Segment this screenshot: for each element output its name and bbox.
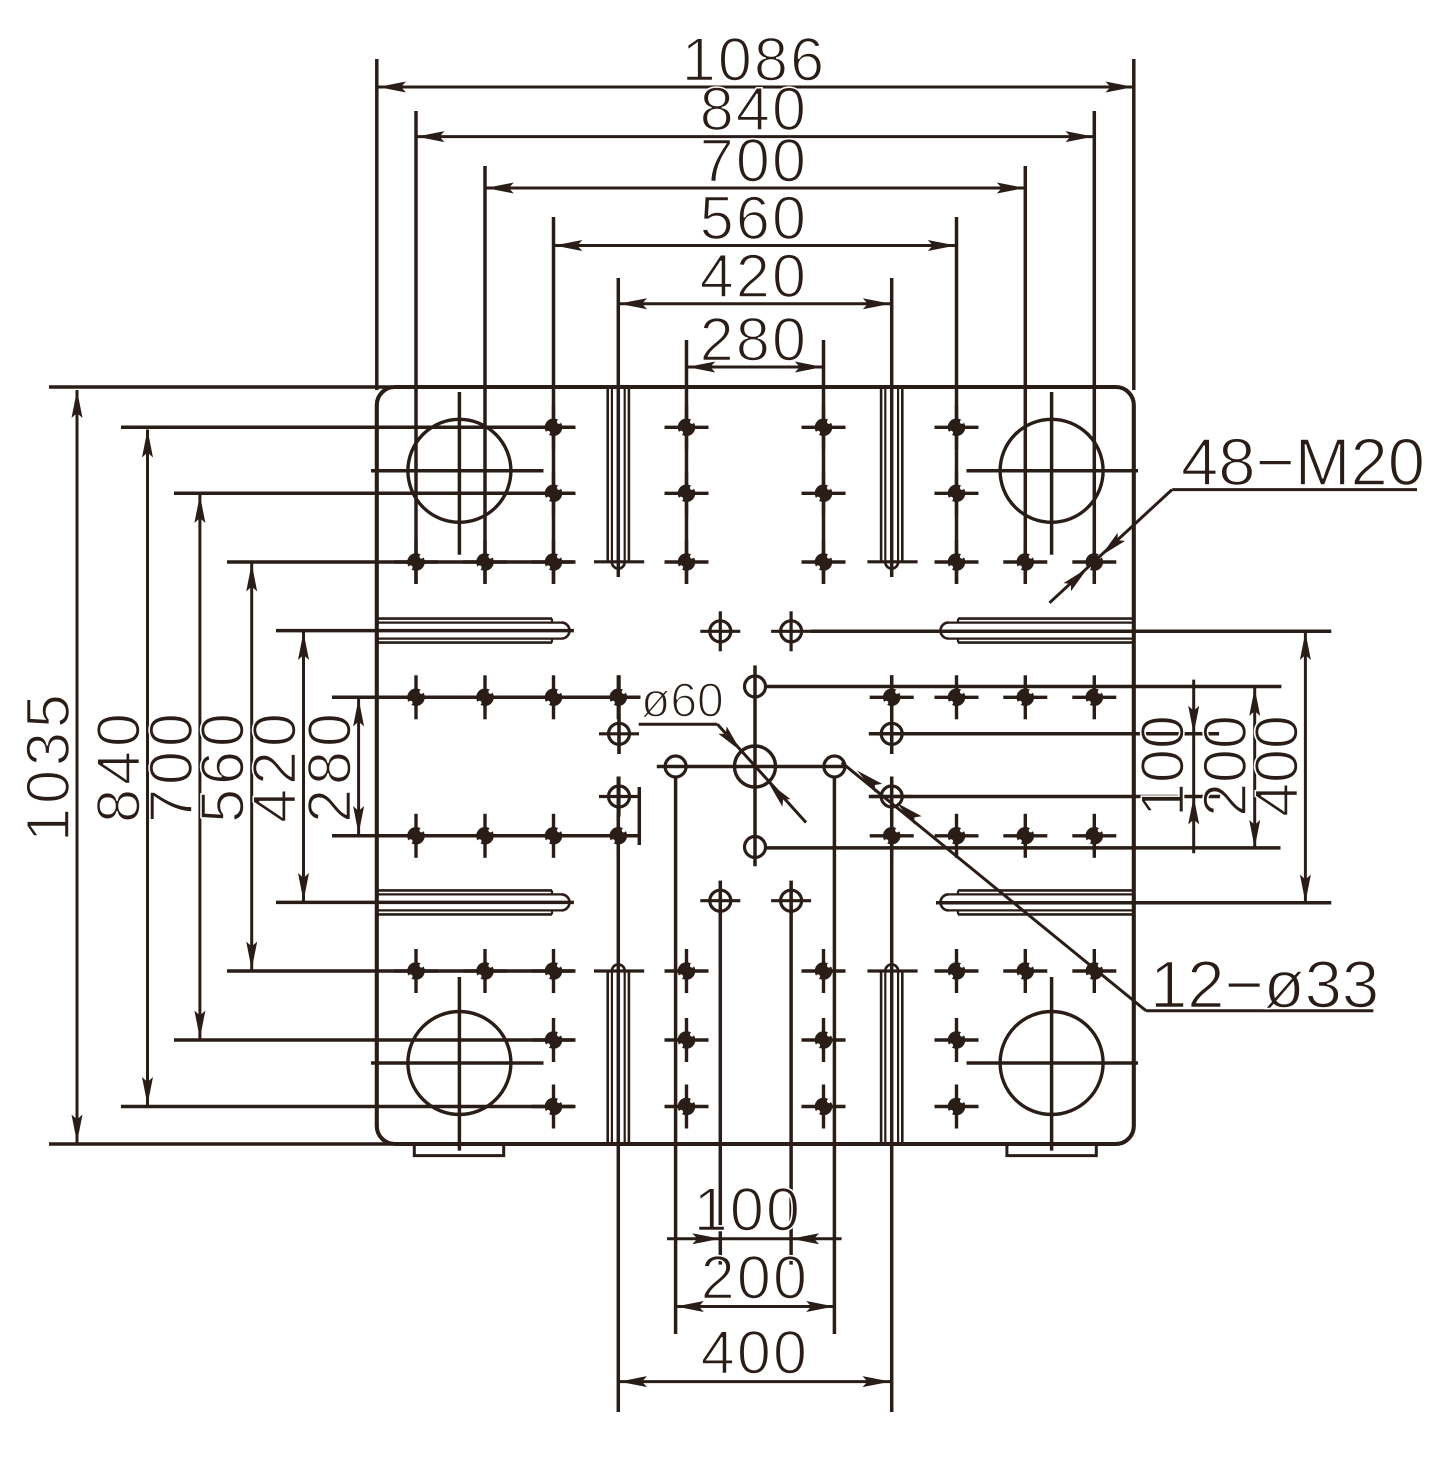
- slot centerline / ext col 892 bottom: [890, 777, 894, 1413]
- plate outline: [377, 387, 1134, 1144]
- tie-bar centerline horizontal top-left: [371, 469, 544, 473]
- dimension 280 top: [687, 366, 823, 369]
- M20 tapped hole (891.7,697.3): [870, 675, 914, 719]
- centerline col 892 upper: [890, 675, 894, 754]
- M20 tapped hole (891.7,835.8): [870, 814, 914, 858]
- ext col 553 top: [552, 217, 556, 584]
- center vertical centerline: [753, 665, 757, 866]
- M20 tapped hole (618.3,835.8): [596, 814, 640, 858]
- ext col 676 bottom: [674, 778, 678, 1335]
- center horizontal centerline: [657, 765, 844, 769]
- ejector hole o33 (720.3,900.7): [700, 881, 740, 921]
- ext col 720 bottom: [719, 881, 723, 1265]
- M20 tapped hole (553.5,835.8): [532, 814, 576, 858]
- M20 tapped hole (1025.3,971): [1003, 949, 1047, 993]
- dimension 700 left: [198, 495, 201, 1039]
- dimension 1035 left: [76, 390, 79, 1143]
- M20 tapped hole (823.5,493.3): [802, 471, 846, 515]
- M20 tapped hole (686.5,971): [665, 949, 709, 993]
- M20 tapped hole (553.5,1106.5): [532, 1085, 576, 1129]
- M20 tapped hole (956.5,493.3): [935, 471, 979, 515]
- T-slot horizontal right-bottom: [958, 889, 1134, 892]
- ext row 562 left: [227, 560, 574, 564]
- svg-text:ø60: ø60: [641, 675, 724, 728]
- M20 tapped hole (956.5,971): [935, 949, 979, 993]
- M20 tapped hole (1025.3,835.8): [1003, 814, 1047, 858]
- slot centerline / ext row 903 right: [936, 901, 1331, 905]
- dimension 560 left: [250, 564, 253, 970]
- M20 tapped hole (956.5,1040): [935, 1018, 979, 1062]
- M20 tapped hole (416,971): [394, 949, 438, 993]
- tie-bar hole bottom-right: [1000, 1012, 1103, 1115]
- svg-text:400: 400: [1242, 715, 1310, 817]
- dimension 100 bottom: [667, 1237, 842, 1240]
- dimension 420 left: [302, 632, 305, 901]
- M20 tapped hole (485,835.8): [463, 814, 507, 858]
- dimension 400 right: [1304, 632, 1307, 903]
- M20 tapped hole (553.5,562): [532, 540, 576, 584]
- M20 tapped hole (1025.3,562): [1003, 540, 1047, 584]
- svg-text:420: 420: [700, 242, 808, 310]
- tie-bar hole top-left: [408, 419, 511, 522]
- M20 tapped hole (686.5,562): [665, 540, 709, 584]
- centerline col 619 upper: [617, 675, 621, 754]
- T-slot horizontal left-top: [377, 617, 552, 620]
- M20 tapped hole (485,562): [463, 540, 507, 584]
- M20 tapped hole (553.5,427.3): [532, 405, 576, 449]
- M20 tapped hole (416,562): [394, 540, 438, 584]
- ext row 848 right: [766, 846, 1281, 850]
- dimension 700 top: [486, 187, 1025, 190]
- ejector hole o33 (720.3,631.3): [700, 611, 740, 651]
- ext row 631 right: [811, 630, 1331, 634]
- ext col 956 top: [955, 217, 959, 584]
- T-slot vertical top-left: [606, 387, 609, 561]
- svg-text:400: 400: [701, 1318, 809, 1386]
- tie-bar centerline horizontal top-right: [967, 469, 1139, 473]
- M20 tapped hole (1094.3,562): [1072, 540, 1116, 584]
- tie-bar centerline vertical bottom-right: [1050, 977, 1054, 1151]
- ext col 686 top: [685, 340, 689, 584]
- svg-text:12−ø33: 12−ø33: [1150, 948, 1379, 1023]
- ext col 791 bottom: [789, 881, 793, 1265]
- ext row 836 left: [332, 834, 641, 838]
- M20 tapped hole (956.5,697.3): [935, 675, 979, 719]
- ext plate left edge up: [375, 59, 379, 390]
- dimension 560 top: [554, 244, 956, 247]
- M20 tapped hole (823.5,971): [802, 949, 846, 993]
- T-slot horizontal left-bottom: [377, 889, 552, 892]
- leader 48-M20: [1050, 490, 1173, 603]
- svg-text:48−M20: 48−M20: [1181, 425, 1425, 500]
- ejector hole o33 (755,847): [745, 837, 766, 858]
- M20 tapped hole (956.5,1106.5): [935, 1085, 979, 1129]
- ejector hole o33 (834.4,766.5): [824, 756, 845, 777]
- dimension 280 left: [357, 699, 360, 835]
- slot centerline col 618 top: [617, 278, 621, 577]
- M20 tapped hole (686.5,493.3): [665, 471, 709, 515]
- M20 tapped hole (956.5,562): [935, 540, 979, 584]
- M20 tapped hole (686.5,1040): [665, 1018, 709, 1062]
- M20 tapped hole (485,697.3): [463, 675, 507, 719]
- svg-text:1035: 1035: [14, 690, 82, 842]
- ejector hole o33 (891.7,733.8): [872, 714, 912, 754]
- ext bottom edge left: [49, 1142, 392, 1146]
- M20 tapped hole (823.5,562): [802, 540, 846, 584]
- ext col 834 bottom: [833, 778, 837, 1335]
- ejector hole o33 (619,796.5): [599, 777, 639, 817]
- tie-bar centerline horizontal bottom-left: [371, 1061, 544, 1065]
- ext row 687 right: [766, 685, 1281, 689]
- ext row 1106 left: [121, 1105, 574, 1109]
- M20 tapped hole (686.5,427.3): [665, 405, 709, 449]
- ejector hole o33 (619,733.8): [599, 714, 639, 754]
- tie-bar hole top-right: [1000, 419, 1103, 522]
- M20 tapped hole (823.5,1106.5): [802, 1085, 846, 1129]
- dimension 840 left: [146, 430, 149, 1106]
- M20 tapped hole (1094.3,971): [1072, 949, 1116, 993]
- ext top edge left: [49, 385, 392, 389]
- T-slot vertical top-right: [880, 387, 883, 561]
- slot centerline / ext col 618 bottom: [617, 777, 621, 1413]
- dimension 400 bottom: [619, 1380, 891, 1383]
- ext row 427 left: [121, 426, 574, 430]
- leader 12-o33: [842, 763, 1146, 1011]
- M20 tapped hole (416,835.8): [394, 814, 438, 858]
- M20 tapped hole (553.5,493.3): [532, 471, 576, 515]
- svg-text:200: 200: [701, 1243, 809, 1311]
- tie-bar centerline vertical bottom-left: [458, 977, 462, 1151]
- ext row 1040 left: [174, 1038, 574, 1042]
- ejector hole o33 (891.7,796.5): [872, 777, 912, 817]
- tie-bar centerline vertical top-right: [1050, 392, 1054, 555]
- ext row 734 right: [869, 732, 1219, 736]
- dimension 840 top: [417, 135, 1094, 138]
- M20 tapped hole (1025.3,697.3): [1003, 675, 1047, 719]
- M20 tapped hole (485,971): [463, 949, 507, 993]
- M20 tapped hole (956.5,427.3): [935, 405, 979, 449]
- dimension 200 bottom: [676, 1305, 834, 1308]
- ext row 797 right: [869, 795, 1220, 799]
- ejector hole o33 (675.6,766.5): [665, 756, 686, 777]
- M20 tapped hole (823.5,427.3): [802, 405, 846, 449]
- ext col 485 top: [483, 166, 487, 584]
- M20 tapped hole (553.5,1040): [532, 1018, 576, 1062]
- slot centerline col 892 top: [890, 278, 894, 577]
- M20 tapped hole (1094.3,697.3): [1072, 675, 1116, 719]
- ejector hole o33 (791.1,900.7): [771, 881, 811, 921]
- tie-bar centerline vertical top-left: [458, 392, 462, 555]
- bottom mounting tab left: [414, 1144, 503, 1156]
- leader o60: [639, 723, 718, 726]
- ext row 971 left: [227, 969, 574, 973]
- slot centerline / ext row 902 left: [276, 901, 574, 905]
- ext col 823 top: [822, 340, 826, 584]
- T-slot vertical bottom-left: [606, 972, 609, 1144]
- svg-text:100: 100: [1128, 715, 1196, 817]
- M20 tapped hole (416,697.3): [394, 675, 438, 719]
- locating ring hole o60: [735, 746, 776, 787]
- dimension 100 right: [1192, 680, 1195, 854]
- M20 tapped hole (553.5,697.3): [532, 675, 576, 719]
- svg-text:280: 280: [296, 709, 364, 823]
- svg-text:280: 280: [700, 306, 808, 374]
- M20 tapped hole (618.3,697.3): [596, 675, 640, 719]
- svg-text:100: 100: [694, 1176, 802, 1244]
- tie-bar hole bottom-left: [408, 1012, 511, 1115]
- M20 tapped hole (686.5,1106.5): [665, 1085, 709, 1129]
- T-slot vertical bottom-right: [880, 972, 883, 1144]
- dimension 420 top: [619, 302, 891, 305]
- ext row 697 left: [332, 696, 641, 700]
- M20 tapped hole (956.5,835.8): [935, 814, 979, 858]
- M20 tapped hole (553.5,971): [532, 949, 576, 993]
- ejector hole o33 (791.1,631.3): [771, 611, 811, 651]
- M20 tapped hole (823.5,1040): [802, 1018, 846, 1062]
- ext col 416 top: [414, 111, 418, 584]
- ejector hole o33 (755,686.5): [745, 676, 766, 697]
- ext row 493 left: [174, 492, 574, 496]
- dimension 200 right: [1253, 688, 1256, 848]
- slot centerline / ext row 630 left: [276, 629, 574, 633]
- ext plate right edge up: [1132, 59, 1136, 390]
- ext col 1025 top: [1024, 166, 1028, 584]
- bottom mounting tab right: [1007, 1144, 1096, 1156]
- dimension 1086 top: [378, 86, 1134, 89]
- tick col 639: [638, 787, 642, 845]
- tie-bar centerline horizontal bottom-right: [967, 1061, 1139, 1065]
- M20 tapped hole (1094.3,835.8): [1072, 814, 1116, 858]
- T-slot horizontal right-top: [958, 617, 1134, 620]
- ext col 1094 top: [1093, 111, 1097, 584]
